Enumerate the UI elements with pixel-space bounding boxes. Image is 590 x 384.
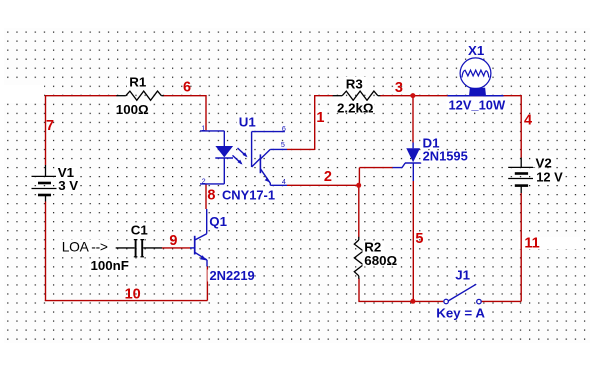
svg-text:8: 8 — [207, 188, 215, 204]
svg-text:R3: R3 — [346, 76, 363, 91]
svg-text:6: 6 — [183, 80, 191, 96]
resistor R3 — [333, 91, 381, 100]
svg-text:9: 9 — [169, 233, 177, 249]
label R3 — [344, 76, 367, 91]
wire net10 bottom horizontal — [45, 300, 208, 302]
junction net5 (D1/bottom wire) — [410, 299, 415, 304]
wire net3 junction to lamp to right corner — [413, 95, 521, 97]
svg-text:C1: C1 — [131, 223, 149, 238]
svg-text:4: 4 — [524, 113, 532, 129]
svg-text:10: 10 — [125, 287, 141, 303]
svg-text:R1: R1 — [129, 75, 147, 90]
svg-text:2.2kΩ: 2.2kΩ — [337, 101, 374, 116]
input label LOA — [60, 240, 110, 255]
wire net2 U1 pin4 to junction — [287, 184, 359, 186]
svg-text:2: 2 — [324, 169, 332, 185]
svg-text:V2: V2 — [536, 155, 552, 170]
label R2 — [363, 240, 385, 255]
label U1 — [237, 114, 258, 129]
transistor Q1 — [190, 209, 207, 267]
wire net1 U1 pin5 to R3 — [287, 96, 333, 150]
battery V1 — [32, 165, 57, 202]
label R1 — [127, 75, 150, 90]
value label 680Ω (R2) — [363, 253, 400, 268]
optocoupler U1 light arrow heads — [238, 152, 270, 182]
value label 12 V (V2) — [533, 169, 563, 184]
svg-text:680Ω: 680Ω — [364, 253, 397, 268]
part label 2N2219 (Q1) — [208, 268, 255, 283]
svg-text:2N1595: 2N1595 — [423, 148, 468, 163]
svg-text:100Ω: 100Ω — [116, 102, 149, 117]
svg-text:Q1: Q1 — [209, 214, 227, 229]
svg-text:Key = A: Key = A — [436, 306, 485, 321]
wire net7 left vertical top (V1+ to R1) — [45, 96, 47, 165]
label V2 — [533, 155, 554, 170]
svg-text:LOA -->: LOA --> — [62, 240, 108, 255]
svg-text:1: 1 — [316, 110, 324, 126]
value label 100Ω (R1) — [114, 102, 153, 117]
capacitor C1 — [116, 239, 162, 257]
svg-text:1: 1 — [201, 124, 205, 133]
value label 2.2kΩ (R3) — [335, 101, 375, 116]
svg-text:U1: U1 — [239, 114, 257, 129]
wire net4 right vertical to V2+ — [520, 95, 522, 158]
label Q1 — [208, 214, 229, 229]
wire net11 V2- down to corner — [520, 193, 522, 301]
svg-text:2N2219: 2N2219 — [210, 268, 255, 283]
svg-text:5: 5 — [281, 140, 285, 149]
wire net5 D1 cathode down — [412, 181, 414, 301]
svg-text:6: 6 — [282, 124, 286, 133]
wire net3 D1 anode from junction — [412, 96, 414, 143]
value label 100nF (C1) — [89, 258, 131, 273]
resistor R1 — [116, 91, 163, 100]
svg-text:X1: X1 — [468, 43, 485, 58]
svg-text:3 V: 3 V — [58, 178, 78, 193]
svg-text:12V_10W: 12V_10W — [449, 97, 506, 112]
svg-text:3: 3 — [395, 80, 403, 96]
wire net8 U1 pin2 to Q1 collector — [205, 184, 207, 209]
wire net2 R2 top vertical — [358, 185, 360, 237]
wire net5 R2 bottom vertical — [358, 278, 360, 301]
svg-text:7: 7 — [46, 118, 54, 134]
svg-text:J1: J1 — [455, 268, 470, 283]
transistor Q1 emitter arrow head — [200, 255, 206, 260]
svg-text:12 V: 12 V — [536, 169, 563, 184]
wire net2 junction up to gate — [359, 168, 392, 186]
part label 2N1595 (D1) — [421, 148, 468, 163]
svg-text:2: 2 — [202, 176, 206, 185]
battery V2 — [508, 158, 535, 194]
lamp X1 — [448, 58, 504, 96]
switch J1 — [444, 284, 481, 304]
label C1 — [129, 223, 149, 238]
key label Key = A (J1) — [435, 306, 488, 321]
svg-text:4: 4 — [282, 177, 286, 186]
wire net7 top horizontal to R1 — [45, 95, 117, 97]
junction net3 (R3/D1/lamp) — [410, 93, 415, 98]
wire net9 C1 to Q1 base — [162, 247, 190, 249]
label V1 — [56, 165, 77, 180]
value label 3 V (V1) — [57, 178, 80, 193]
svg-text:CNY17-1: CNY17-1 — [222, 187, 275, 202]
SCR D1 triangle — [406, 148, 420, 162]
svg-text:5: 5 — [415, 231, 423, 247]
label D1 — [421, 135, 441, 150]
wire net5 switch left to R2 bottom corner — [358, 300, 443, 302]
wire net6 R1 to U1 pin1 — [164, 95, 207, 130]
value label 12V_10W (X1) — [447, 97, 507, 112]
wire net11 bottom to switch — [482, 300, 522, 302]
label X1 — [466, 43, 487, 58]
svg-text:11: 11 — [524, 236, 539, 252]
part label CNY17-1 (U1) — [220, 187, 276, 202]
wire net10 V1- down — [45, 202, 47, 302]
wire net10 Q1 emitter vertical — [206, 266, 208, 301]
svg-text:100nF: 100nF — [91, 258, 129, 273]
wire net3 R3 to junction — [380, 95, 413, 97]
resistor R2 — [354, 237, 363, 279]
optocoupler U1 LED triangle — [215, 146, 233, 157]
optocoupler U1 — [200, 131, 287, 185]
SCR D1 — [393, 143, 422, 182]
junction net2 (pin4/gate/R2) — [356, 183, 361, 188]
label J1 — [453, 268, 472, 283]
